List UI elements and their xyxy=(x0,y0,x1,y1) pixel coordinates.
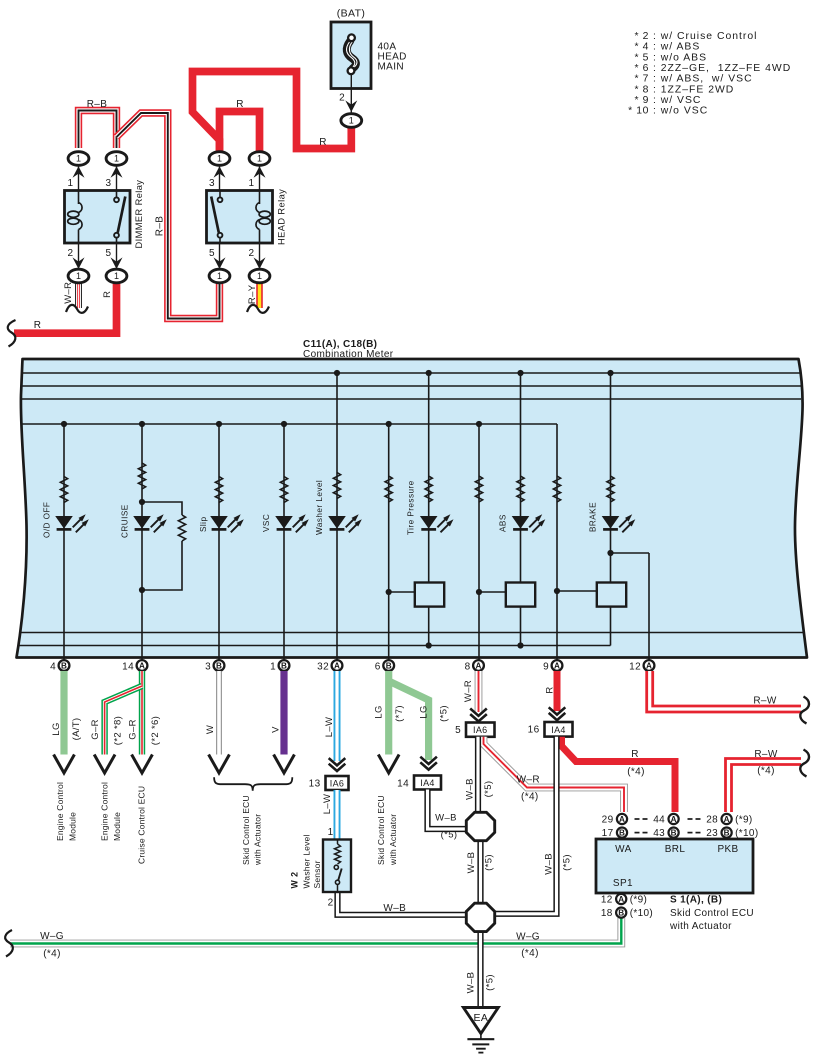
svg-text:B: B xyxy=(671,829,677,838)
svg-text:B: B xyxy=(618,909,624,918)
svg-text:13: 13 xyxy=(309,779,321,790)
svg-text:EA: EA xyxy=(474,1012,489,1024)
svg-text:B: B xyxy=(619,829,625,838)
svg-text:6: 6 xyxy=(375,661,381,672)
svg-text:W 2: W 2 xyxy=(290,872,300,889)
svg-text:R–W: R–W xyxy=(753,696,776,707)
svg-text:W–G: W–G xyxy=(516,931,540,942)
svg-text:(*5): (*5) xyxy=(562,854,573,871)
svg-text:* 8: * 8 xyxy=(634,84,649,95)
svg-text:W–B: W–B xyxy=(383,903,406,914)
svg-text:A: A xyxy=(476,662,482,671)
svg-text:V: V xyxy=(271,726,282,733)
svg-text:DIMMER Relay: DIMMER Relay xyxy=(134,180,144,249)
svg-text:Module: Module xyxy=(67,812,77,841)
svg-text:A: A xyxy=(724,815,730,824)
svg-text:: 2ZZ–GE, 1ZZ–FE 4WD: : 2ZZ–GE, 1ZZ–FE 4WD xyxy=(653,63,791,74)
svg-text:IA6: IA6 xyxy=(330,778,345,788)
svg-text:Combination Meter: Combination Meter xyxy=(303,349,394,360)
svg-text:Tire Pressure: Tire Pressure xyxy=(407,480,416,535)
svg-text:: w/ Cruise Control: : w/ Cruise Control xyxy=(653,31,757,42)
svg-text:WA: WA xyxy=(615,844,631,855)
svg-text:Sensor: Sensor xyxy=(312,860,322,888)
svg-text:W–R: W–R xyxy=(463,680,474,702)
svg-text:28: 28 xyxy=(706,815,718,826)
svg-text:4: 4 xyxy=(50,661,56,672)
svg-text:1: 1 xyxy=(114,154,119,164)
svg-text:: w/ VSC: : w/ VSC xyxy=(653,95,701,106)
svg-text:(BAT): (BAT) xyxy=(337,8,365,20)
svg-text:16: 16 xyxy=(528,725,540,736)
svg-text:B: B xyxy=(281,662,287,671)
svg-text:32: 32 xyxy=(317,661,329,672)
svg-text:W–G: W–G xyxy=(40,931,64,942)
svg-text:12: 12 xyxy=(601,895,613,906)
svg-text:R–W: R–W xyxy=(754,749,777,760)
svg-text:A: A xyxy=(334,662,340,671)
svg-text:1: 1 xyxy=(76,271,81,281)
svg-text:Module: Module xyxy=(112,812,122,841)
svg-text:(*9): (*9) xyxy=(735,815,753,826)
svg-text:R–Y: R–Y xyxy=(247,284,258,304)
svg-text:W: W xyxy=(205,725,216,734)
svg-text:* 7: * 7 xyxy=(634,74,649,85)
svg-text:2: 2 xyxy=(249,248,255,259)
svg-text:MAIN: MAIN xyxy=(378,62,404,73)
svg-text:(*9): (*9) xyxy=(630,895,648,906)
svg-text:1: 1 xyxy=(257,154,262,164)
svg-text:PKB: PKB xyxy=(717,844,738,855)
svg-text:* 9: * 9 xyxy=(634,95,649,106)
svg-text:5: 5 xyxy=(209,248,215,259)
svg-text:W–B: W–B xyxy=(544,853,555,875)
svg-text:8: 8 xyxy=(465,661,471,672)
svg-text:12: 12 xyxy=(629,661,641,672)
svg-text:1: 1 xyxy=(328,827,334,838)
svg-text:1: 1 xyxy=(217,154,222,164)
svg-text:A: A xyxy=(671,815,677,824)
svg-text:R: R xyxy=(631,749,639,760)
svg-text:1: 1 xyxy=(68,178,74,189)
svg-text:1: 1 xyxy=(257,271,262,281)
svg-text:L–W: L–W xyxy=(324,717,335,738)
svg-text:: w/o VSC: : w/o VSC xyxy=(653,106,708,117)
svg-text:(*4): (*4) xyxy=(627,767,645,778)
svg-text:A: A xyxy=(619,815,625,824)
svg-text:(*4): (*4) xyxy=(43,948,61,959)
svg-text:G–R: G–R xyxy=(90,719,101,740)
svg-text:CRUISE: CRUISE xyxy=(121,504,130,538)
svg-text:(*2 *8): (*2 *8) xyxy=(113,716,124,745)
svg-text:ABS: ABS xyxy=(499,514,508,532)
svg-text:(*5): (*5) xyxy=(483,781,494,798)
svg-text:B: B xyxy=(724,829,730,838)
svg-text:29: 29 xyxy=(602,815,614,826)
svg-text:(*5): (*5) xyxy=(484,974,495,991)
svg-text:Skid Control ECU: Skid Control ECU xyxy=(376,795,386,865)
svg-text:B: B xyxy=(216,662,222,671)
svg-text:W–R: W–R xyxy=(517,774,540,785)
svg-text:14: 14 xyxy=(397,779,409,790)
svg-text:L–W: L–W xyxy=(322,794,333,815)
svg-text:LG: LG xyxy=(374,705,385,718)
svg-text:(*10): (*10) xyxy=(630,908,653,919)
svg-text:: w/o ABS: : w/o ABS xyxy=(653,52,707,63)
svg-text:R: R xyxy=(319,137,327,148)
svg-text:1: 1 xyxy=(217,271,222,281)
svg-text:Skid Control ECU: Skid Control ECU xyxy=(241,795,251,865)
svg-text:with Actuator: with Actuator xyxy=(253,814,263,866)
svg-text:Washer Level: Washer Level xyxy=(301,834,311,888)
svg-text:R: R xyxy=(544,686,555,693)
svg-text:Slip: Slip xyxy=(199,517,208,532)
svg-text:(*4): (*4) xyxy=(521,948,539,959)
svg-text:3: 3 xyxy=(205,661,211,672)
svg-text:B: B xyxy=(61,662,67,671)
svg-text:2: 2 xyxy=(339,93,345,104)
svg-text:: w/ ABS: : w/ ABS xyxy=(653,42,700,53)
svg-text:1: 1 xyxy=(76,154,81,164)
svg-text:A: A xyxy=(646,662,652,671)
svg-text:Engine Control: Engine Control xyxy=(55,782,65,841)
svg-text:W–B: W–B xyxy=(466,972,477,994)
svg-text:(*4): (*4) xyxy=(521,791,539,802)
svg-text:* 4: * 4 xyxy=(634,42,649,53)
svg-text:Washer Level: Washer Level xyxy=(315,480,324,535)
svg-text:(*5): (*5) xyxy=(439,705,450,722)
svg-text:IA4: IA4 xyxy=(420,778,435,788)
svg-text:* 2: * 2 xyxy=(634,31,649,42)
svg-text:2: 2 xyxy=(68,248,74,259)
svg-text:44: 44 xyxy=(653,815,665,826)
svg-text:1: 1 xyxy=(114,271,119,281)
svg-text:: w/ ABS, w/ VSC: : w/ ABS, w/ VSC xyxy=(653,74,753,85)
svg-text:O/D OFF: O/D OFF xyxy=(43,502,52,538)
svg-text:18: 18 xyxy=(601,908,613,919)
svg-text:S 1(A), (B): S 1(A), (B) xyxy=(670,895,722,906)
svg-text:R: R xyxy=(34,320,42,331)
svg-text:VSC: VSC xyxy=(262,514,271,532)
svg-text:(*7): (*7) xyxy=(394,705,405,722)
svg-text:A: A xyxy=(139,662,145,671)
svg-text:3: 3 xyxy=(209,178,215,189)
svg-text:17: 17 xyxy=(602,828,614,839)
svg-text:A: A xyxy=(618,895,624,904)
svg-text:(*10): (*10) xyxy=(735,828,758,839)
svg-text:G–R: G–R xyxy=(127,719,138,740)
svg-text:HEAD Relay: HEAD Relay xyxy=(277,189,287,245)
svg-text:1: 1 xyxy=(270,661,276,672)
svg-text:W–B: W–B xyxy=(435,813,457,824)
svg-text:B: B xyxy=(386,662,392,671)
svg-text:(*5): (*5) xyxy=(483,854,494,871)
svg-text:* 6: * 6 xyxy=(634,63,649,74)
svg-text:with Actuator: with Actuator xyxy=(669,921,732,932)
svg-text:W–B: W–B xyxy=(466,852,477,874)
svg-text:14: 14 xyxy=(122,661,134,672)
svg-text:A: A xyxy=(554,662,560,671)
svg-text:BRL: BRL xyxy=(665,844,686,855)
svg-text:LG: LG xyxy=(51,722,62,735)
svg-text:R: R xyxy=(102,291,113,298)
svg-text:5: 5 xyxy=(106,248,112,259)
svg-text:SP1: SP1 xyxy=(613,878,633,889)
svg-text:23: 23 xyxy=(706,828,718,839)
svg-text:2: 2 xyxy=(328,898,334,909)
svg-text:* 10: * 10 xyxy=(628,106,649,117)
svg-text:W–R: W–R xyxy=(63,282,74,304)
svg-text:(A/T): (A/T) xyxy=(71,718,82,741)
svg-text:(*4): (*4) xyxy=(757,766,775,777)
svg-text:: 1ZZ–FE 2WD: : 1ZZ–FE 2WD xyxy=(653,84,734,95)
svg-text:W–B: W–B xyxy=(465,778,476,800)
svg-text:3: 3 xyxy=(106,178,112,189)
svg-text:Cruise Control ECU: Cruise Control ECU xyxy=(137,786,147,864)
svg-text:(*2 *6): (*2 *6) xyxy=(150,716,161,745)
svg-text:(*5): (*5) xyxy=(441,830,458,841)
svg-text:5: 5 xyxy=(455,725,461,736)
svg-text:9: 9 xyxy=(543,661,549,672)
svg-text:43: 43 xyxy=(653,828,665,839)
svg-text:with Actuator: with Actuator xyxy=(388,814,398,866)
svg-text:Engine Control: Engine Control xyxy=(100,782,110,841)
svg-text:IA6: IA6 xyxy=(473,725,488,735)
svg-text:IA4: IA4 xyxy=(551,725,566,735)
svg-text:R–B: R–B xyxy=(87,99,108,110)
svg-text:1: 1 xyxy=(249,178,255,189)
svg-text:* 5: * 5 xyxy=(634,52,649,63)
svg-text:Skid Control ECU: Skid Control ECU xyxy=(670,908,754,919)
svg-text:R: R xyxy=(236,99,244,110)
svg-text:BRAKE: BRAKE xyxy=(589,502,598,532)
svg-text:LG: LG xyxy=(418,705,429,718)
svg-text:1: 1 xyxy=(349,116,354,126)
svg-text:R–B: R–B xyxy=(154,216,165,237)
